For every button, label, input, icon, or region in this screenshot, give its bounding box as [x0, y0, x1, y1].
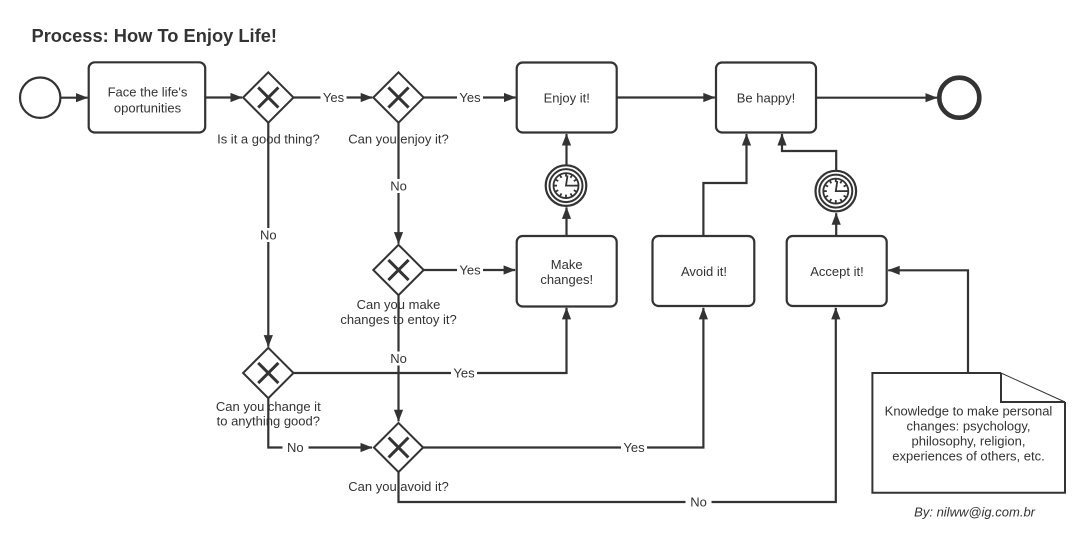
- task: Avoid it!: [653, 236, 755, 306]
- gateway G3: Can you make changes to entoy it?: [340, 245, 456, 327]
- task: Enjoy it!: [517, 63, 617, 133]
- svg-text:changes!: changes!: [540, 272, 593, 287]
- svg-text:philosophy, religion,: philosophy, religion,: [912, 434, 1026, 449]
- svg-text:Knowledge to make personal: Knowledge to make personal: [885, 404, 1053, 419]
- wire: G1 No down to gateway G4: [258, 123, 278, 347]
- gateway G4: Can you change it to anything good?: [216, 348, 321, 429]
- wire: start to task Face: [61, 97, 88, 99]
- svg-text:Face the life's: Face the life's: [108, 85, 188, 100]
- wire: G3 No down to gateway G5: [388, 295, 408, 421]
- wire: G5 Yes right and up into Avoid it bottom: [423, 308, 703, 455]
- wire: G1 Yes to gateway G2: [294, 90, 373, 105]
- svg-text:Avoid it!: Avoid it!: [681, 264, 727, 279]
- task: Accept it!: [787, 236, 887, 306]
- wire: task Face to gateway G1: [205, 96, 242, 98]
- wire: Enjoy to Be happy: [617, 96, 715, 98]
- svg-text:Yes: Yes: [459, 90, 481, 105]
- svg-text:No: No: [390, 351, 407, 366]
- task: Face the life's oportunities: [89, 62, 206, 132]
- timer event T2: [816, 171, 857, 212]
- gateway G1: Is it a good thing?: [217, 72, 320, 146]
- wire: Avoid it top up and right into Be happy bottom: [703, 134, 746, 236]
- wire: timer T1 up to Enjoy: [565, 134, 567, 165]
- svg-text:Make: Make: [551, 257, 583, 272]
- svg-text:Yes: Yes: [459, 263, 481, 278]
- wire: G4 No down and right into gateway G5: [268, 398, 372, 455]
- svg-text:By: nilww@ig.com.br: By: nilww@ig.com.br: [914, 505, 1036, 520]
- wire: G5 No down and right and up into Accept it bottom: [399, 308, 836, 510]
- gateway G5: Can you avoid it?: [348, 423, 448, 494]
- wire: G2 No down to gateway G3: [388, 123, 408, 244]
- timer event T1: [546, 165, 587, 206]
- svg-text:No: No: [287, 440, 304, 455]
- svg-text:No: No: [690, 495, 707, 510]
- svg-text:No: No: [390, 179, 407, 194]
- wire: note up and left into Accept it right: [888, 270, 968, 373]
- svg-text:Process: How To Enjoy Life!: Process: How To Enjoy Life!: [32, 25, 277, 46]
- start event: [20, 78, 60, 118]
- svg-text:No: No: [260, 228, 277, 243]
- svg-text:changes: psychology,: changes: psychology,: [906, 419, 1030, 434]
- svg-text:Yes: Yes: [323, 90, 345, 105]
- wire: Be happy to end event: [816, 97, 937, 99]
- wire: G4 Yes right and up into Make changes bottom: [294, 308, 567, 381]
- gateway G2: Can you enjoy it?: [348, 72, 448, 146]
- wire: timer T2 up and left into Be happy bottom: [782, 134, 836, 171]
- annotation note: Knowledge to make personal changes: [872, 373, 1065, 493]
- svg-text:Be happy!: Be happy!: [737, 91, 796, 106]
- svg-text:Yes: Yes: [623, 440, 645, 455]
- svg-text:oportunities: oportunities: [114, 101, 182, 116]
- svg-text:Accept it!: Accept it!: [810, 264, 863, 279]
- wire: G3 Yes to task Make changes: [424, 263, 515, 278]
- svg-text:experiences of others, etc.: experiences of others, etc.: [892, 449, 1044, 464]
- svg-text:Yes: Yes: [453, 366, 475, 381]
- end event: [939, 78, 979, 118]
- task: Be happy!: [716, 63, 816, 133]
- svg-text:Enjoy it!: Enjoy it!: [544, 91, 590, 106]
- wire: Accept it top up to timer T2: [835, 213, 837, 236]
- wire: G2 Yes to task Enjoy: [424, 90, 516, 105]
- wire: Make changes up to timer T1: [565, 207, 567, 236]
- task: Make changes!: [517, 236, 617, 307]
